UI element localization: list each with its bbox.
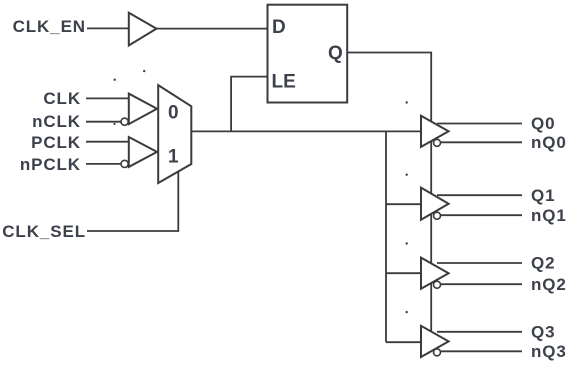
inversion bubble on nCLK — [121, 118, 128, 125]
svg-text:nPCLK: nPCLK — [20, 155, 81, 174]
wire bus stub to buffer 3 — [386, 272, 421, 274]
dot mark near nCLK wire — [113, 123, 115, 125]
wire CLK_SEL to mux select — [87, 171, 178, 231]
differential receiver B (PCLK/nPCLK) — [129, 137, 157, 167]
dot mark above buffer 1 — [406, 101, 408, 103]
inversion bubble on nPCLK — [121, 160, 128, 167]
wire LE branch — [231, 77, 267, 132]
wire nQ0 output — [439, 141, 522, 143]
output buffer 4 — [421, 326, 449, 357]
svg-text:1: 1 — [168, 146, 179, 167]
mux M1 — [158, 85, 191, 183]
svg-text:CLK_EN: CLK_EN — [13, 17, 86, 36]
svg-text:D: D — [272, 17, 286, 38]
svg-text:Q2: Q2 — [531, 254, 555, 273]
output buffer 1 — [421, 116, 449, 147]
wire mux output to output buffers — [191, 130, 421, 132]
latch U2 box — [268, 5, 348, 103]
inversion bubble nQ3 — [434, 349, 441, 356]
wire Q1 output — [437, 194, 522, 196]
svg-text:nQ3: nQ3 — [531, 342, 567, 361]
dot mark A — [114, 79, 116, 81]
svg-text:Q3: Q3 — [531, 323, 555, 342]
inversion bubble nQ2 — [434, 281, 441, 288]
svg-text:nQ0: nQ0 — [531, 133, 567, 152]
svg-text:nCLK: nCLK — [32, 112, 81, 131]
wire nQ3 output — [439, 350, 522, 352]
svg-text:Q1: Q1 — [531, 186, 555, 205]
dot mark above buffer 4 — [406, 311, 408, 313]
wire PCLK input — [86, 141, 129, 143]
wire bus stub to buffer 2 — [386, 203, 421, 205]
wire nQ2 output — [439, 283, 522, 285]
svg-text:LE: LE — [272, 71, 296, 92]
dot mark above buffer 2 — [406, 174, 408, 176]
differential receiver A (CLK/nCLK) — [129, 94, 157, 125]
svg-text:nQ1: nQ1 — [531, 206, 567, 225]
output buffer 3 — [421, 258, 449, 289]
wire latch Q output and enable rail — [347, 53, 431, 342]
dot mark above buffer 3 — [406, 242, 408, 244]
svg-text:CLK: CLK — [43, 89, 81, 108]
svg-text:nQ2: nQ2 — [531, 275, 567, 294]
output buffer 2 — [421, 188, 449, 220]
svg-text:CLK_SEL: CLK_SEL — [2, 222, 86, 241]
buffer U1 (CLK_EN enable buffer) — [129, 13, 157, 46]
inversion bubble nQ0 — [434, 139, 441, 146]
wire nCLK input — [86, 121, 121, 123]
wire Q3 output — [437, 331, 522, 333]
wire Q0 output — [437, 123, 522, 125]
wire clock distribution bus vertical — [385, 131, 387, 342]
wire Q2 output — [437, 262, 522, 264]
wire buffer U1 output to latch D input — [157, 28, 268, 30]
svg-text:Q: Q — [328, 43, 343, 64]
wire CLK input — [86, 97, 129, 99]
svg-text:Q0: Q0 — [531, 114, 555, 133]
dot mark B — [143, 70, 145, 72]
wire nQ1 output — [439, 214, 522, 216]
wire bus stub to buffer 4 — [386, 341, 421, 343]
svg-text:PCLK: PCLK — [31, 133, 81, 152]
wire nPCLK input — [86, 163, 121, 165]
wire CLK_EN to buffer — [87, 27, 129, 29]
svg-text:0: 0 — [168, 103, 179, 124]
inversion bubble nQ1 — [434, 212, 441, 219]
